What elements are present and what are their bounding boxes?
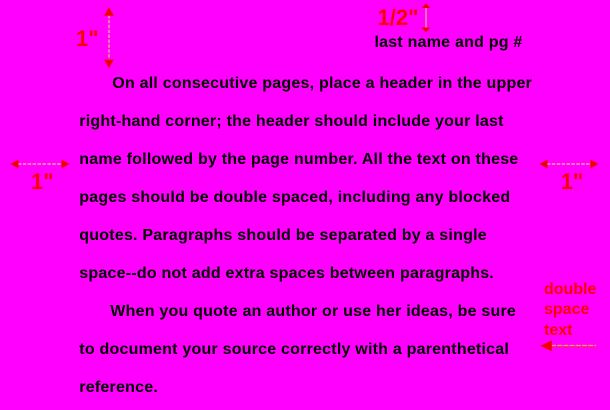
label 1" right margin	[561, 171, 584, 193]
label double space text	[544, 280, 596, 341]
arrow: vertical 1/2" header	[421, 3, 431, 33]
body paragraphs	[79, 65, 532, 407]
header note: last name and pg #	[375, 33, 523, 52]
arrow: double space pointer	[540, 340, 597, 352]
label 1/2"	[378, 7, 419, 29]
arrow: vertical 1" top-left margin	[102, 6, 116, 70]
label 1" top-left margin	[76, 28, 99, 50]
arrow: horizontal 1" right margin	[539, 158, 599, 170]
label 1" left margin	[31, 171, 54, 193]
arrow: horizontal 1" left margin	[10, 158, 70, 170]
